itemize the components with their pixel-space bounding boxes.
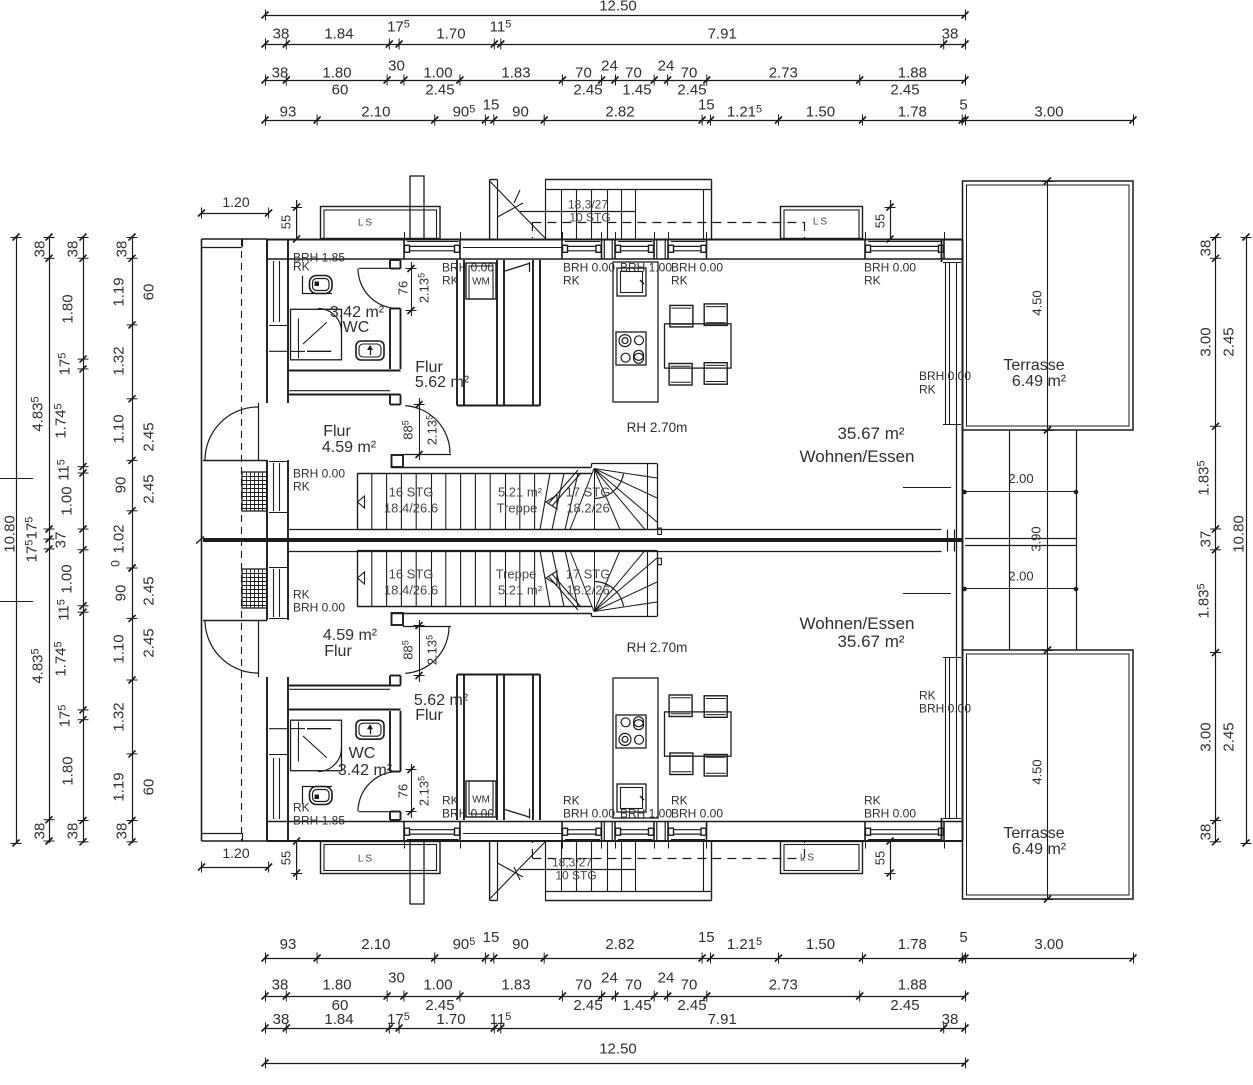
svg-text:10 STG: 10 STG — [555, 868, 596, 882]
svg-text:1.10: 1.10 — [110, 634, 127, 663]
window labels bottom unit — [293, 688, 971, 827]
svg-text:38: 38 — [272, 64, 289, 81]
dimension chain right 10.80 — [1230, 234, 1251, 847]
svg-text:1.50: 1.50 — [806, 936, 835, 953]
svg-text:7.91: 7.91 — [708, 1011, 737, 1028]
svg-text:38: 38 — [31, 241, 48, 258]
shaft box top — [410, 176, 424, 239]
svg-text:BRH 0.00: BRH 0.00 — [919, 701, 971, 715]
svg-text:76: 76 — [396, 281, 411, 295]
svg-text:RH 2.70m: RH 2.70m — [627, 420, 688, 435]
svg-text:4.50: 4.50 — [1030, 290, 1045, 315]
svg-text:1.02: 1.02 — [110, 524, 127, 553]
wall WC south upper unit — [288, 371, 401, 395]
svg-text:4.59 m²: 4.59 m² — [323, 627, 378, 644]
door entrance lower unit — [205, 620, 259, 677]
svg-text:BRH 0.00: BRH 0.00 — [293, 600, 345, 614]
washbasin upper unit — [356, 341, 384, 360]
svg-text:1.19: 1.19 — [110, 772, 127, 801]
external stair bottom — [490, 841, 712, 901]
wall WC south lower unit — [288, 686, 401, 710]
svg-text:4.50: 4.50 — [1030, 759, 1045, 784]
svg-text:3.90: 3.90 — [1029, 526, 1044, 551]
external stair top — [490, 180, 712, 240]
svg-text:BRH 0.00: BRH 0.00 — [864, 260, 916, 274]
stair labels top — [384, 485, 611, 516]
svg-text:5.21 m²: 5.21 m² — [498, 485, 543, 500]
svg-text:RK: RK — [671, 793, 688, 807]
svg-text:7.91: 7.91 — [708, 25, 737, 42]
svg-text:WC: WC — [349, 745, 376, 762]
kitchen counter lower unit — [613, 678, 658, 818]
reference marks left edge — [0, 479, 33, 602]
svg-text:1.80: 1.80 — [322, 64, 351, 81]
svg-text:4.59 m²: 4.59 m² — [322, 439, 377, 456]
dimension 2.00 top — [962, 471, 1078, 494]
svg-text:15: 15 — [698, 96, 715, 113]
exterior wall right — [942, 239, 963, 841]
svg-text:5: 5 — [959, 96, 967, 113]
wall WC east upper unit — [390, 260, 401, 369]
svg-text:38: 38 — [1197, 824, 1214, 841]
terrace bottom — [963, 650, 1134, 899]
washing machine upper unit — [466, 263, 496, 299]
dimension 76 door WC lower unit — [396, 764, 432, 818]
svg-text:BRH 1.00: BRH 1.00 — [620, 260, 672, 274]
svg-text:12.50: 12.50 — [599, 0, 637, 14]
svg-text:38: 38 — [1197, 240, 1214, 257]
svg-text:55: 55 — [873, 214, 888, 228]
svg-text:1.84: 1.84 — [324, 25, 353, 42]
dimension 55 bottom left — [279, 838, 302, 881]
svg-text:RK: RK — [563, 793, 580, 807]
room labels top unit — [322, 304, 915, 466]
dimension chain bottom row A (12.50) — [262, 1040, 969, 1068]
svg-text:1.10: 1.10 — [110, 414, 127, 443]
wall niche partitions upper unit — [457, 260, 540, 406]
kitchen cooktop lower unit — [616, 715, 646, 748]
svg-text:1.50: 1.50 — [806, 103, 835, 120]
svg-text:90: 90 — [112, 585, 129, 602]
svg-text:10.80: 10.80 — [1, 515, 18, 553]
svg-text:2.00: 2.00 — [1008, 471, 1033, 486]
svg-text:RK: RK — [671, 273, 688, 287]
svg-text:10.80: 10.80 — [1230, 515, 1247, 553]
svg-text:0: 0 — [108, 560, 122, 567]
svg-text:38: 38 — [64, 241, 81, 258]
svg-text:1.00: 1.00 — [423, 64, 452, 81]
svg-text:55: 55 — [279, 851, 294, 865]
door hall 88.5 lower unit — [401, 620, 451, 682]
svg-text:18.2/26: 18.2/26 — [566, 501, 609, 516]
svg-text:2.73: 2.73 — [769, 64, 798, 81]
LS box bottom right — [781, 842, 863, 874]
wall stair north lower unit — [357, 607, 592, 614]
kitchen cooktop upper unit — [616, 332, 646, 365]
svg-text:1.45: 1.45 — [622, 81, 651, 98]
svg-text:1.20: 1.20 — [222, 845, 249, 861]
svg-text:70: 70 — [625, 976, 642, 993]
svg-text:1.88: 1.88 — [898, 976, 927, 993]
walkway between terraces — [965, 430, 1077, 650]
svg-text:1.80: 1.80 — [59, 294, 76, 323]
svg-text:RK: RK — [864, 793, 881, 807]
svg-text:1.00: 1.00 — [58, 564, 75, 593]
kitchen counter upper unit — [613, 262, 658, 402]
dimension chain top row D — [262, 96, 1137, 125]
svg-text:38: 38 — [273, 1011, 290, 1028]
dimension chain bottom row B — [262, 1011, 969, 1034]
svg-text:Flur: Flur — [415, 707, 443, 724]
svg-text:5.62 m²: 5.62 m² — [415, 374, 470, 391]
toilet upper unit — [302, 276, 332, 294]
svg-text:15: 15 — [698, 929, 715, 946]
svg-text:Treppe: Treppe — [496, 567, 537, 582]
svg-text:18.4/26.6: 18.4/26.6 — [384, 501, 438, 516]
light-shaft grille bottom — [242, 569, 267, 608]
svg-text:30: 30 — [388, 969, 405, 986]
svg-text:2.45: 2.45 — [677, 997, 706, 1014]
toilet lower unit — [302, 787, 332, 805]
svg-text:LS: LS — [358, 854, 374, 865]
door hall 88.5 upper unit — [401, 398, 451, 460]
svg-text:1.00: 1.00 — [423, 976, 452, 993]
svg-text:2.45: 2.45 — [573, 81, 602, 98]
dashed service line top — [532, 222, 804, 224]
svg-text:2.45: 2.45 — [890, 997, 919, 1014]
party wall — [196, 530, 963, 552]
svg-text:93: 93 — [280, 103, 297, 120]
dimension 1.20 top left — [198, 194, 272, 219]
dimension 76 door WC upper unit — [396, 262, 432, 316]
svg-text:70: 70 — [681, 976, 698, 993]
svg-text:6.49 m²: 6.49 m² — [1012, 373, 1067, 390]
dimension chain left col2 — [23, 234, 54, 845]
svg-text:2.10: 2.10 — [361, 103, 390, 120]
svg-text:1.70: 1.70 — [436, 1011, 465, 1028]
svg-text:2.45: 2.45 — [890, 81, 919, 98]
svg-text:1.70: 1.70 — [436, 25, 465, 42]
svg-text:15: 15 — [483, 929, 500, 946]
svg-text:2.82: 2.82 — [605, 103, 634, 120]
svg-text:60: 60 — [140, 779, 157, 796]
svg-text:1.83: 1.83 — [501, 976, 530, 993]
svg-text:38: 38 — [113, 241, 130, 258]
dimension chain bottom row C — [262, 969, 969, 1014]
svg-text:Wohnen/Essen: Wohnen/Essen — [800, 614, 915, 633]
svg-text:3.00: 3.00 — [1034, 103, 1063, 120]
svg-text:BRH 0.00: BRH 0.00 — [671, 260, 723, 274]
svg-text:60: 60 — [140, 284, 157, 301]
svg-text:LS: LS — [800, 853, 816, 864]
svg-text:38: 38 — [942, 25, 959, 42]
exterior wall top — [267, 232, 963, 272]
svg-text:24: 24 — [658, 57, 675, 74]
svg-text:1.32: 1.32 — [110, 702, 127, 731]
exterior wall bottom — [267, 809, 963, 849]
svg-text:3.42 m²: 3.42 m² — [338, 762, 393, 779]
washbasin lower unit — [356, 720, 384, 739]
svg-text:Terrasse: Terrasse — [1003, 825, 1064, 842]
dimension 55 top left — [279, 200, 302, 243]
dining chairs lower unit — [669, 695, 727, 776]
svg-text:1.00: 1.00 — [58, 486, 75, 515]
svg-text:38: 38 — [31, 823, 48, 840]
svg-text:24: 24 — [601, 57, 618, 74]
svg-text:17 STG: 17 STG — [566, 567, 611, 582]
kitchen sink lower unit — [617, 784, 646, 812]
svg-text:BRH 0.00: BRH 0.00 — [919, 369, 971, 383]
svg-text:24: 24 — [601, 969, 618, 986]
external stair labels — [552, 197, 611, 882]
svg-text:2.10: 2.10 — [361, 936, 390, 953]
svg-text:Flur: Flur — [324, 643, 352, 660]
grille window labels — [293, 466, 345, 614]
shaft box bottom — [410, 841, 424, 904]
svg-text:90: 90 — [112, 477, 129, 494]
svg-text:1.78: 1.78 — [898, 103, 927, 120]
dimension 1.20 bottom left — [198, 845, 272, 873]
svg-text:5: 5 — [959, 929, 967, 946]
svg-text:1.83: 1.83 — [501, 64, 530, 81]
svg-text:70: 70 — [575, 976, 592, 993]
terrace top — [963, 181, 1134, 430]
svg-text:16 STG: 16 STG — [389, 567, 434, 582]
LS box bottom left — [321, 842, 441, 874]
svg-text:18.2/26: 18.2/26 — [566, 583, 609, 598]
svg-text:BRH 0.00: BRH 0.00 — [293, 466, 345, 480]
exterior wall left — [267, 239, 288, 841]
svg-text:BRH 0.00: BRH 0.00 — [671, 806, 723, 820]
wall hall pier and door opening upper unit — [390, 395, 403, 468]
door entrance upper unit — [205, 403, 259, 460]
svg-text:2.45: 2.45 — [140, 628, 157, 657]
svg-text:2.45: 2.45 — [425, 81, 454, 98]
svg-text:RK: RK — [864, 273, 881, 287]
light-shaft grille top — [242, 472, 267, 511]
kitchen sink upper unit — [617, 268, 646, 296]
svg-text:RK: RK — [293, 587, 310, 601]
svg-text:BRH 0.00: BRH 0.00 — [442, 806, 494, 820]
svg-text:1.88: 1.88 — [898, 64, 927, 81]
svg-text:76: 76 — [396, 784, 411, 798]
door WC upper unit — [358, 268, 398, 308]
svg-text:RK: RK — [563, 273, 580, 287]
svg-text:5.21 m²: 5.21 m² — [498, 583, 543, 598]
staircase upper unit — [357, 464, 661, 535]
dining table lower unit — [665, 712, 732, 756]
dimension chain bottom row D — [262, 929, 1137, 964]
svg-text:BRH 0.00: BRH 0.00 — [563, 260, 615, 274]
svg-text:BRH 1.85: BRH 1.85 — [293, 813, 345, 827]
dimension 55 bottom right — [873, 838, 896, 881]
svg-text:1.19: 1.19 — [110, 277, 127, 306]
dimension 2.00 bottom — [962, 569, 1078, 592]
svg-text:LS: LS — [813, 217, 829, 228]
svg-text:1.80: 1.80 — [322, 976, 351, 993]
porch strip left — [202, 239, 268, 841]
svg-text:10 STG: 10 STG — [569, 210, 610, 224]
svg-text:70: 70 — [575, 64, 592, 81]
svg-text:BRH 0.00: BRH 0.00 — [864, 806, 916, 820]
svg-text:1.45: 1.45 — [622, 997, 651, 1014]
door WC lower unit — [358, 772, 398, 812]
svg-text:35.67 m²: 35.67 m² — [837, 424, 904, 443]
svg-text:6.49 m²: 6.49 m² — [1012, 841, 1067, 858]
svg-text:2.73: 2.73 — [769, 976, 798, 993]
svg-text:2.45: 2.45 — [140, 422, 157, 451]
svg-text:BRH 1.00: BRH 1.00 — [620, 806, 672, 820]
svg-text:55: 55 — [279, 215, 294, 229]
dashed service line bottom — [532, 858, 804, 860]
svg-text:90: 90 — [512, 936, 529, 953]
svg-text:RK: RK — [442, 793, 459, 807]
svg-text:1.78: 1.78 — [898, 936, 927, 953]
svg-text:60: 60 — [332, 81, 349, 98]
svg-text:RK: RK — [919, 688, 936, 702]
svg-text:24: 24 — [658, 969, 675, 986]
svg-text:RH 2.70m: RH 2.70m — [627, 640, 688, 655]
svg-text:70: 70 — [625, 64, 642, 81]
svg-text:2.45: 2.45 — [1220, 327, 1237, 356]
wall niche partitions lower unit — [457, 675, 540, 821]
LS box top right — [781, 207, 863, 239]
svg-text:90: 90 — [512, 103, 529, 120]
svg-text:BRH 0.00: BRH 0.00 — [442, 260, 494, 274]
shower lower unit — [291, 720, 342, 771]
svg-text:2.45: 2.45 — [140, 576, 157, 605]
svg-text:38: 38 — [273, 25, 290, 42]
svg-text:WC: WC — [343, 319, 370, 336]
svg-text:2.45: 2.45 — [1220, 722, 1237, 751]
svg-text:Terrasse: Terrasse — [1003, 357, 1064, 374]
dimension chain top row A (12.50) — [262, 0, 969, 21]
svg-text:1.84: 1.84 — [324, 1011, 353, 1028]
svg-text:17 STG: 17 STG — [566, 485, 611, 500]
svg-text:70: 70 — [681, 64, 698, 81]
svg-text:35.67 m²: 35.67 m² — [837, 632, 904, 651]
svg-text:18,3/27: 18,3/27 — [568, 197, 608, 211]
svg-text:WM: WM — [472, 277, 490, 288]
svg-text:55: 55 — [873, 851, 888, 865]
svg-text:3.00: 3.00 — [1034, 936, 1063, 953]
shower upper unit — [291, 309, 342, 360]
svg-text:18,3/27: 18,3/27 — [552, 855, 592, 869]
dimension chain top row B — [262, 18, 969, 49]
dimension 55 top right — [873, 200, 896, 243]
svg-text:Treppe: Treppe — [497, 501, 538, 516]
svg-text:3.00: 3.00 — [1197, 327, 1214, 356]
svg-text:RK: RK — [293, 479, 310, 493]
svg-text:Wohnen/Essen: Wohnen/Essen — [800, 447, 915, 466]
svg-text:2.82: 2.82 — [605, 936, 634, 953]
svg-text:38: 38 — [942, 1011, 959, 1028]
window labels top unit — [293, 250, 971, 396]
wall hall pier and door opening lower unit — [390, 613, 403, 686]
svg-text:RK: RK — [919, 382, 936, 396]
svg-text:RK: RK — [293, 800, 310, 814]
staircase lower unit — [357, 551, 661, 617]
svg-text:2.00: 2.00 — [1008, 569, 1033, 584]
svg-text:WM: WM — [472, 795, 490, 806]
LS box top left — [321, 207, 441, 239]
svg-text:12.50: 12.50 — [599, 1040, 637, 1057]
svg-text:2.45: 2.45 — [140, 474, 157, 503]
dimension chain left 10.80 — [1, 234, 21, 847]
section line marks right — [903, 488, 951, 594]
dimension chain right col1 — [1195, 234, 1237, 846]
dining chairs upper unit — [669, 304, 727, 385]
svg-text:37: 37 — [1197, 531, 1214, 548]
dimension chain left col3 — [52, 234, 88, 846]
wall WC east lower unit — [390, 711, 401, 820]
svg-text:30: 30 — [388, 57, 405, 74]
svg-text:BRH 0.00: BRH 0.00 — [563, 806, 615, 820]
dimension 4.50 / 3.90 / 4.50 vertical through terraces — [1029, 178, 1053, 903]
svg-text:LS: LS — [358, 218, 374, 229]
room labels bottom unit — [323, 614, 915, 779]
svg-text:RK: RK — [442, 273, 459, 287]
svg-text:15: 15 — [483, 96, 500, 113]
svg-text:2.45: 2.45 — [573, 997, 602, 1014]
svg-text:18.4/26.6: 18.4/26.6 — [384, 583, 438, 598]
svg-text:38: 38 — [64, 823, 81, 840]
svg-text:3.00: 3.00 — [1197, 722, 1214, 751]
svg-text:Flur: Flur — [323, 423, 351, 440]
wall stair north upper unit — [357, 468, 592, 474]
svg-text:93: 93 — [280, 936, 297, 953]
svg-text:38: 38 — [113, 823, 130, 840]
svg-text:37: 37 — [52, 532, 69, 549]
dining table upper unit — [665, 324, 732, 368]
svg-text:RK: RK — [293, 259, 310, 273]
svg-text:38: 38 — [272, 976, 289, 993]
washing machine lower unit — [466, 781, 496, 817]
svg-text:1.20: 1.20 — [222, 194, 249, 210]
svg-text:1.80: 1.80 — [59, 756, 76, 785]
dimension chain left col4 — [108, 234, 157, 846]
dimension chain top row C — [262, 57, 969, 98]
svg-text:1.32: 1.32 — [110, 346, 127, 375]
svg-text:16 STG: 16 STG — [389, 485, 434, 500]
stair labels bottom — [384, 567, 611, 598]
